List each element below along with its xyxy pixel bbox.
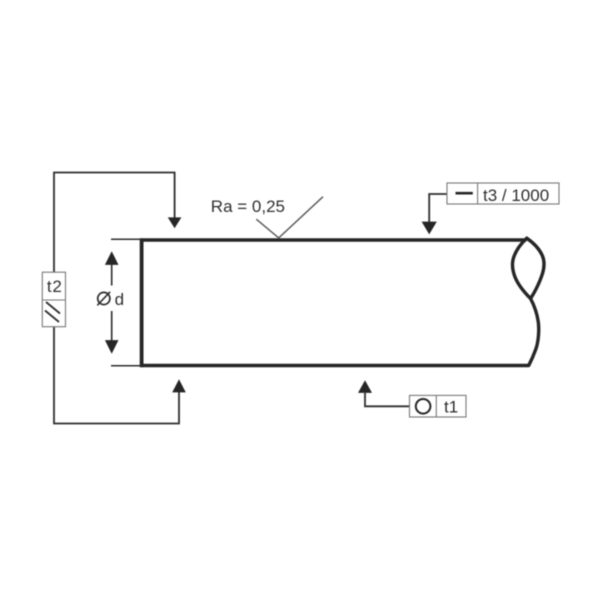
dimension line upper segment: [111, 264, 113, 286]
t2 leader top run: [54, 173, 175, 273]
extension line upper (for diameter dim): [111, 238, 141, 240]
svg-text:t3 / 1000: t3 / 1000: [483, 186, 549, 205]
t2 leader bottom run: [54, 327, 179, 424]
t2 leader top arrow: [168, 217, 182, 228]
label Ø (diameter symbol drawn): [98, 292, 110, 304]
roundness symbol circle: [416, 399, 431, 414]
svg-text:t2: t2: [47, 277, 63, 296]
svg-text:d: d: [115, 290, 124, 309]
extension line lower (for diameter dim): [111, 365, 141, 367]
parallelism symbol stroke 2: [45, 311, 59, 323]
t2 tolerance frame box: [42, 272, 65, 327]
t3 frame divider: [477, 183, 479, 204]
t1 frame divider: [435, 395, 437, 417]
t1 tolerance frame box: [410, 395, 467, 417]
t2 leader bottom arrow: [172, 379, 186, 392]
t1 leader run: [365, 393, 410, 406]
parallelism symbol stroke 1: [46, 302, 60, 314]
surface roughness check mark: [256, 197, 323, 238]
t3 leader run: [429, 194, 447, 222]
shaft body top line: [140, 238, 527, 241]
svg-text:Ra = 0,25: Ra = 0,25: [211, 197, 285, 216]
t3 tolerance frame box: [447, 183, 559, 204]
t3 leader arrow: [422, 222, 437, 235]
shaft left end face: [140, 238, 144, 367]
break line teardrop loop: [512, 238, 543, 365]
svg-text:t1: t1: [444, 398, 458, 417]
t1 leader arrow: [358, 380, 372, 393]
t2 frame divider: [42, 299, 65, 301]
shaft body bottom line: [140, 364, 529, 367]
dimension arrow up: [105, 251, 119, 265]
dimension line lower segment: [111, 311, 113, 341]
straightness symbol bar: [456, 192, 473, 195]
dimension arrow down: [105, 340, 119, 354]
